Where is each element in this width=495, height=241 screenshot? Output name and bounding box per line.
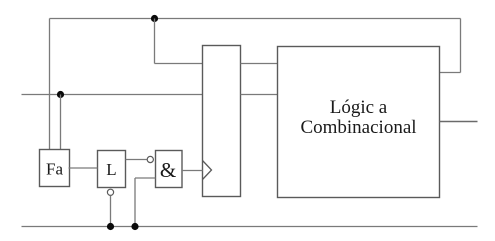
wire: middle input bus xyxy=(22,94,203,96)
wire: L output to AND inverted input xyxy=(126,159,147,161)
wire: top feedback bus horizontal xyxy=(50,18,461,20)
wire: vertical from middle-bus junction to Fa xyxy=(60,95,62,150)
clock input triangle of register xyxy=(203,161,212,180)
wire: bottom bus xyxy=(22,226,478,228)
svg-text:L: L xyxy=(106,160,116,179)
combinational logic block xyxy=(278,47,440,198)
wire: left vertical from top bus to Fa xyxy=(49,19,51,150)
inverter bubble below L xyxy=(107,189,113,195)
block L xyxy=(98,151,126,188)
junction node on middle bus xyxy=(57,91,64,98)
svg-text:Combinacional: Combinacional xyxy=(300,117,416,138)
wire: from L bubble down to bottom bus xyxy=(110,196,112,227)
junction node bottom bus left xyxy=(107,223,114,230)
wire: combinational output to the right xyxy=(440,121,478,123)
inverter bubble at AND input xyxy=(147,156,153,162)
junction node on top bus xyxy=(151,15,158,22)
register U1 (state register box) xyxy=(203,46,241,197)
AND gate block xyxy=(156,151,183,188)
junction node bottom bus right xyxy=(131,223,138,230)
svg-text:Fa: Fa xyxy=(46,160,63,179)
svg-text:&: & xyxy=(160,158,176,182)
wire: feedback right vertical xyxy=(460,19,462,73)
svg-text:Lógic a: Lógic a xyxy=(330,97,388,118)
block Fa xyxy=(40,150,70,187)
wire: register upper output to combinational logic xyxy=(241,63,278,65)
wire: register lower output to combinational logic xyxy=(241,94,278,96)
wire: register upper input xyxy=(155,63,203,65)
wire: AND lower input vertical to bottom bus xyxy=(134,178,136,227)
wire: vertical from top-bus junction down xyxy=(154,19,156,64)
wire: Fa to L xyxy=(69,167,98,169)
wire: AND lower input horizontal xyxy=(135,177,156,179)
wire: AND output to register clock xyxy=(182,170,203,172)
wire: feedback into combinational box xyxy=(440,72,461,74)
